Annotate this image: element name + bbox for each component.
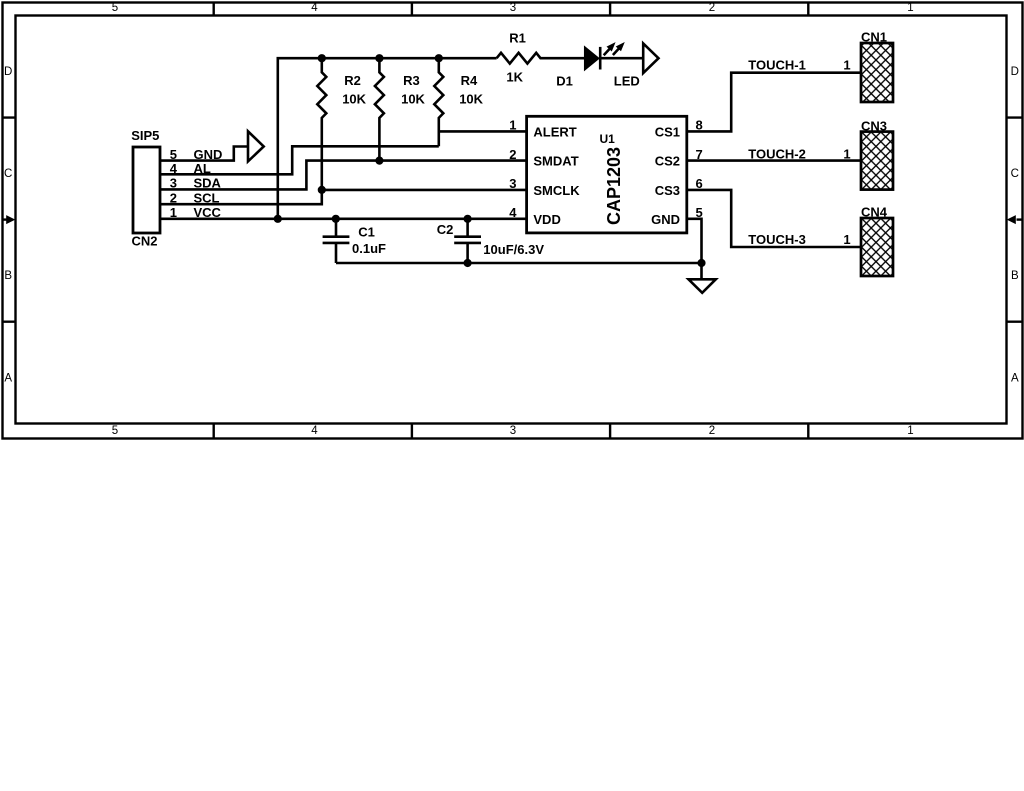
svg-text:B: B (4, 270, 12, 282)
svg-text:R3: R3 (403, 73, 420, 88)
svg-text:SCL: SCL (194, 191, 220, 206)
svg-text:TOUCH-3: TOUCH-3 (748, 232, 806, 247)
svg-text:ALERT: ALERT (533, 124, 576, 139)
svg-text:CS3: CS3 (655, 183, 680, 198)
svg-text:5: 5 (112, 2, 118, 14)
svg-text:1: 1 (843, 232, 850, 247)
svg-text:VCC: VCC (194, 205, 222, 220)
svg-text:SDA: SDA (194, 176, 222, 191)
svg-text:GND: GND (194, 147, 223, 162)
svg-text:CS2: CS2 (655, 154, 680, 169)
svg-text:10K: 10K (459, 91, 483, 106)
svg-text:C: C (1011, 168, 1019, 180)
svg-text:2: 2 (709, 425, 715, 437)
svg-text:6: 6 (696, 176, 703, 191)
svg-text:A: A (4, 373, 12, 385)
svg-text:LED: LED (614, 74, 640, 89)
svg-text:5: 5 (696, 205, 703, 220)
svg-text:SMCLK: SMCLK (533, 183, 580, 198)
svg-text:C2: C2 (437, 222, 454, 237)
svg-text:R2: R2 (344, 73, 361, 88)
svg-text:10uF/6.3V: 10uF/6.3V (483, 242, 544, 257)
svg-text:CAP1203: CAP1203 (604, 147, 624, 225)
svg-text:3: 3 (509, 176, 516, 191)
svg-text:7: 7 (696, 147, 703, 162)
svg-text:3: 3 (510, 425, 516, 437)
svg-text:VDD: VDD (533, 212, 560, 227)
svg-text:4: 4 (311, 2, 318, 14)
svg-text:5: 5 (112, 425, 118, 437)
svg-text:CN2: CN2 (132, 234, 158, 249)
svg-text:A: A (1011, 373, 1019, 385)
svg-text:C: C (4, 168, 12, 180)
svg-text:CN1: CN1 (861, 30, 887, 45)
svg-text:10K: 10K (401, 91, 425, 106)
svg-text:B: B (1011, 270, 1019, 282)
svg-text:1: 1 (907, 425, 913, 437)
svg-text:4: 4 (509, 205, 517, 220)
svg-text:CN3: CN3 (861, 119, 887, 134)
svg-text:1: 1 (843, 146, 850, 161)
svg-text:1: 1 (170, 205, 177, 220)
svg-text:CN4: CN4 (861, 205, 888, 220)
svg-text:4: 4 (311, 425, 318, 437)
svg-text:1K: 1K (506, 70, 523, 85)
svg-text:5: 5 (170, 147, 177, 162)
svg-text:2: 2 (709, 2, 715, 14)
svg-text:R4: R4 (461, 73, 478, 88)
svg-text:8: 8 (696, 118, 703, 133)
svg-text:C1: C1 (358, 224, 375, 239)
svg-text:D1: D1 (556, 74, 573, 89)
svg-text:10K: 10K (342, 91, 366, 106)
svg-text:1: 1 (907, 2, 913, 14)
svg-text:3: 3 (510, 2, 516, 14)
svg-text:GND: GND (651, 212, 680, 227)
svg-text:SIP5: SIP5 (131, 128, 159, 143)
svg-text:4: 4 (170, 161, 178, 176)
svg-text:D: D (1011, 66, 1019, 78)
svg-text:3: 3 (170, 176, 177, 191)
svg-text:U1: U1 (600, 132, 616, 146)
svg-text:1: 1 (843, 58, 850, 73)
svg-text:2: 2 (170, 191, 177, 206)
svg-text:1: 1 (509, 118, 516, 133)
svg-text:CS1: CS1 (655, 124, 680, 139)
svg-text:AL: AL (194, 161, 211, 176)
svg-text:D: D (4, 66, 12, 78)
svg-text:TOUCH-1: TOUCH-1 (748, 58, 806, 73)
svg-text:SMDAT: SMDAT (533, 154, 578, 169)
svg-text:TOUCH-2: TOUCH-2 (748, 146, 806, 161)
svg-text:R1: R1 (509, 31, 526, 46)
svg-text:0.1uF: 0.1uF (352, 241, 386, 256)
svg-text:2: 2 (509, 147, 516, 162)
